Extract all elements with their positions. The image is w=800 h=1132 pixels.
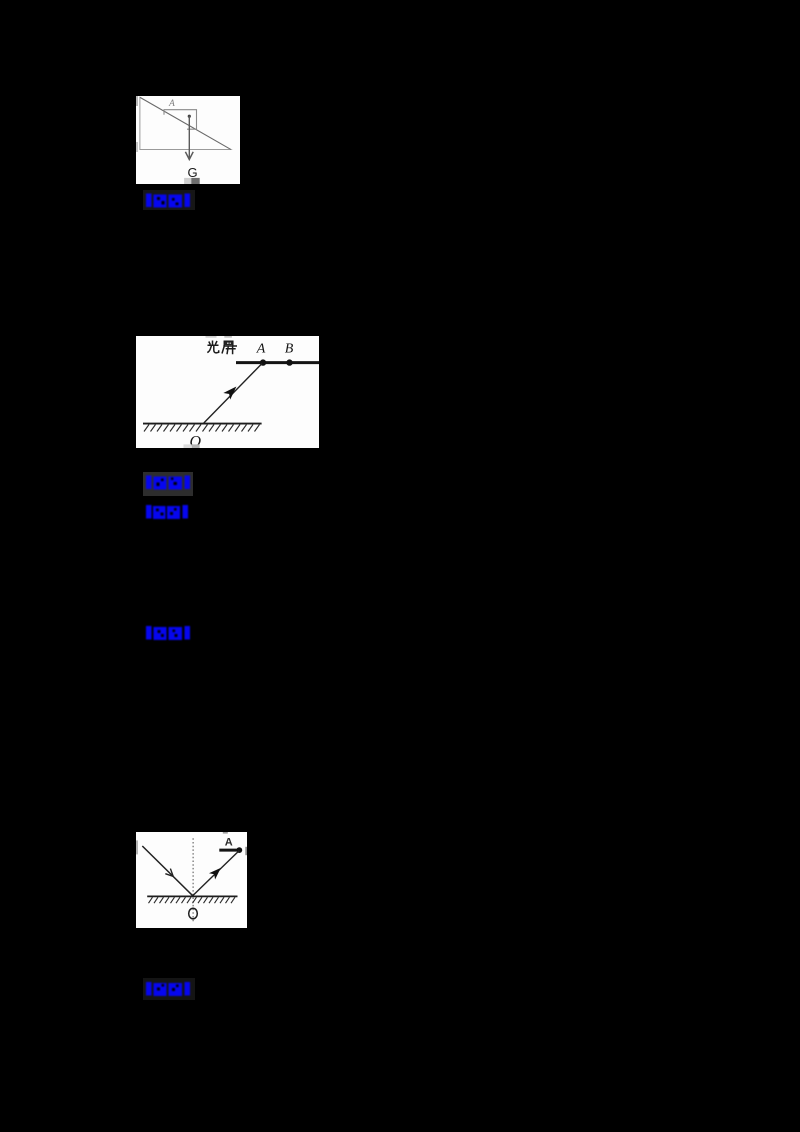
arrowhead on ray bbox=[225, 385, 239, 399]
reflected arrowhead (solid) bbox=[210, 866, 222, 878]
incident arrowhead (open) bbox=[165, 869, 175, 879]
dot A bbox=[260, 359, 266, 365]
diagram figure 3: reflection at surface with normal, rays and screen point A bbox=[136, 832, 247, 928]
hypotenuse bbox=[140, 97, 231, 149]
reflected ray bbox=[193, 851, 240, 896]
gray artifact squares bbox=[184, 178, 191, 184]
blue label 1 bbox=[143, 190, 195, 210]
diagram figure 1: inclined plane with block A and gravity arrow G bbox=[136, 96, 240, 184]
gravity arrow bbox=[188, 116, 190, 158]
svg-text:G: G bbox=[188, 165, 198, 180]
svg-text:B: B bbox=[285, 341, 294, 356]
screen thick segment bbox=[219, 849, 241, 852]
dark head of second CJK char bbox=[225, 342, 233, 346]
dot at A bbox=[236, 847, 242, 853]
blue label 4 bbox=[144, 624, 192, 641]
left edge gray smudge bbox=[136, 840, 138, 854]
block A outline bbox=[164, 110, 197, 130]
gray artifact squares at bottom bbox=[184, 444, 192, 448]
light ray O to A bbox=[204, 364, 262, 424]
svg-text:A: A bbox=[168, 99, 175, 109]
top gray mark bbox=[223, 832, 228, 834]
svg-text:A: A bbox=[225, 836, 233, 848]
right edge tick bbox=[245, 847, 247, 855]
diagram figure 2: light screen (guangping) with points A B and ray from O bbox=[136, 336, 319, 448]
screen thick line bbox=[236, 361, 319, 364]
dot force origin bbox=[188, 115, 191, 118]
ground hatching bbox=[144, 425, 260, 432]
ground line bbox=[147, 895, 237, 897]
CJK text guang-ping drawn as strokes bbox=[207, 341, 237, 355]
blue label 3 bbox=[144, 503, 190, 520]
faint gray marks above text at box top bbox=[206, 336, 217, 338]
dot B bbox=[286, 359, 292, 365]
blue label 2 with gray backdrop bbox=[143, 472, 193, 496]
triangle incline bbox=[140, 97, 231, 149]
ground line bbox=[143, 423, 262, 425]
ground hatching bbox=[149, 897, 236, 903]
label O drawn as ellipse bbox=[189, 908, 198, 919]
dotted normal line bbox=[192, 838, 194, 921]
blue label 5 bbox=[143, 978, 195, 1000]
left edge gray smudge bbox=[136, 96, 138, 106]
incident ray bbox=[142, 846, 192, 896]
svg-text:A: A bbox=[256, 341, 266, 356]
